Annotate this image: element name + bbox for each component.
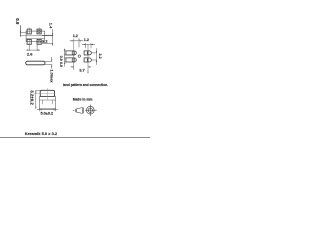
- pad top-right: [37, 29, 41, 34]
- dim 5.0±0.2: [37, 109, 58, 112]
- dim 2.6 (below top view): [26, 45, 40, 51]
- body mid line: [20, 35, 53, 37]
- left dim line with 0.9 / 0.9: [64, 49, 66, 67]
- pad bottom-right hole: [38, 41, 40, 43]
- height dim extension lines: [45, 57, 52, 69]
- pad row2 right: [84, 58, 91, 62]
- svg-text:1.0max: 1.0max: [49, 69, 54, 83]
- svg-text:0.9: 0.9: [15, 18, 20, 25]
- pad top-right hole: [38, 30, 40, 32]
- dim 3.2±0.2: [36, 90, 40, 109]
- side body (stadium, bold): [26, 61, 45, 65]
- 3.7 extension verticals through pads: [73, 39, 75, 71]
- svg-text:3.7: 3.7: [79, 67, 85, 72]
- projection symbol: frustum: [73, 108, 84, 114]
- pad row1 right: [84, 51, 91, 55]
- right dim 2.2: [92, 48, 98, 65]
- pad bottom-left centerline: [28, 39, 30, 45]
- centerline vertical: [46, 88, 48, 100]
- center mark circle: [78, 55, 80, 57]
- pad row2 left: [66, 58, 76, 62]
- base (thin rect): [39, 97, 55, 109]
- dim 0.9 (top-left): [20, 25, 26, 37]
- svg-text:1.2: 1.2: [84, 38, 89, 42]
- left dim extension ticks: [64, 51, 66, 62]
- pad top-left centerline: [28, 27, 30, 34]
- pad top-left: [27, 29, 31, 34]
- pad top-right centerline: [38, 28, 40, 34]
- svg-text:5.0±0.2: 5.0±0.2: [41, 111, 54, 115]
- bottom dim 3.7: [71, 66, 92, 68]
- base seam line: [39, 99, 55, 101]
- svg-text:1.2: 1.2: [73, 34, 78, 38]
- lid (bold rounded rect): [40, 90, 54, 96]
- body outline: [26, 31, 45, 41]
- bottom rule: [0, 137, 150, 139]
- pad row1 left: [66, 51, 76, 55]
- base castellation lines: [42, 100, 44, 104]
- projection symbol: circles: [85, 105, 96, 116]
- svg-text:0.9: 0.9: [59, 56, 63, 61]
- pad bottom-left: [27, 39, 31, 44]
- svg-text:0.9: 0.9: [59, 62, 63, 67]
- right side dim lines with 1.2: [42, 29, 53, 44]
- svg-text:Keramik 5.0 x 3.2: Keramik 5.0 x 3.2: [25, 131, 58, 136]
- pad bottom-right: [37, 39, 41, 44]
- svg-text:2.2: 2.2: [98, 54, 102, 59]
- svg-text:land pattern and connection.: land pattern and connection.: [63, 83, 108, 87]
- svg-text:Maße in mm: Maße in mm: [73, 97, 93, 101]
- body inner line: [26, 38, 45, 40]
- svg-text:1.4: 1.4: [48, 23, 53, 29]
- svg-text:3.2±0.2: 3.2±0.2: [29, 90, 34, 105]
- centerline horizontal: [34, 93, 55, 95]
- svg-text:2.6: 2.6: [27, 52, 33, 57]
- svg-text:1.2: 1.2: [42, 38, 48, 43]
